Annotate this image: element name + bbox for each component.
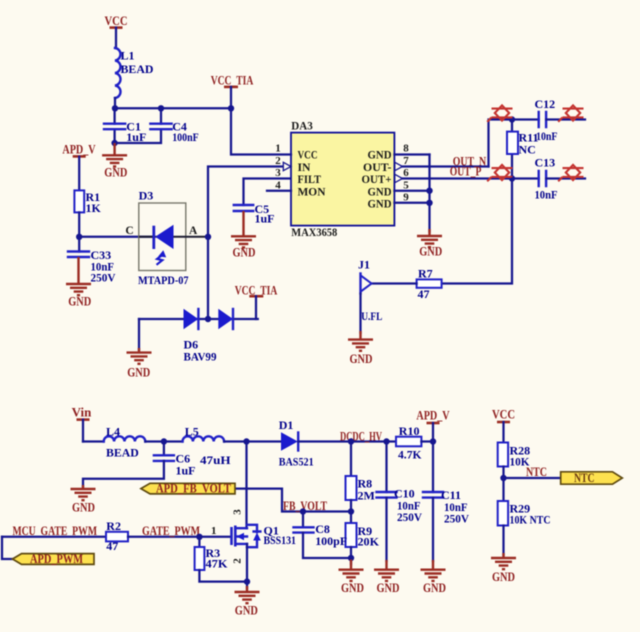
svg-text:GND: GND: [368, 199, 392, 211]
resistor R9: [346, 523, 380, 549]
power port VCC_TIA: [211, 74, 254, 109]
svg-text:GND: GND: [104, 165, 127, 179]
signal harness APD_PWM flag: [13, 552, 95, 566]
capacitor C6: [154, 442, 196, 478]
svg-text:5: 5: [403, 179, 409, 191]
no-ERC marker left of C12: [487, 105, 512, 121]
svg-text:1uF: 1uF: [126, 130, 146, 144]
svg-text:OUT+: OUT+: [362, 174, 392, 186]
node junction C11/APD_V: [430, 438, 436, 444]
svg-text:GND: GND: [423, 581, 446, 595]
svg-text:7: 7: [403, 155, 409, 167]
capacitor C4: [115, 108, 199, 144]
svg-text:NTC: NTC: [574, 471, 595, 485]
svg-text:VCC_TIA: VCC_TIA: [211, 74, 254, 88]
svg-text:8: 8: [403, 143, 409, 155]
node junction L1/C1: [112, 105, 118, 111]
power port Vin: [72, 406, 92, 442]
svg-text:A: A: [189, 225, 198, 237]
diode D6 BAV99: [139, 309, 258, 364]
wire R10 to APD_V: [421, 440, 433, 442]
svg-text:OUT_P: OUT_P: [450, 165, 482, 179]
node junction pin9: [426, 200, 432, 206]
resistor R7: [417, 266, 442, 301]
svg-text:10nF: 10nF: [536, 129, 558, 143]
svg-text:6: 6: [403, 167, 409, 179]
wire Vin to L4: [83, 440, 104, 442]
wire L5 to D1: [224, 440, 281, 442]
wire A node up to pin2 and down to D6: [208, 167, 283, 320]
svg-text:GND: GND: [68, 294, 91, 308]
svg-text:APD_V: APD_V: [62, 143, 95, 157]
resistor R8: [346, 442, 375, 503]
svg-text:MTAPD-07: MTAPD-07: [138, 273, 189, 287]
pin 8 GND: [368, 143, 430, 162]
svg-text:1uF: 1uF: [255, 211, 275, 225]
resistor R1: [74, 190, 101, 215]
ground below J1: [348, 331, 373, 366]
svg-text:R10: R10: [399, 424, 420, 438]
wire MCU_GATE_PWM: [2, 536, 106, 538]
svg-text:GND: GND: [492, 570, 515, 584]
wire D6 left to ground: [138, 319, 140, 350]
svg-text:MON: MON: [298, 186, 327, 198]
node junction R1/C33: [76, 234, 82, 240]
power port APD_V right: [416, 408, 449, 441]
ground below C33: [66, 257, 91, 308]
wire left drop to APD_PWM: [2, 537, 13, 559]
ground below C11: [421, 560, 447, 595]
svg-text:4: 4: [275, 179, 281, 191]
no-ERC marker right of C12: [558, 105, 583, 121]
node junction C8 top: [300, 508, 306, 514]
svg-text:APD_PWM: APD_PWM: [30, 552, 83, 566]
ground below Q1: [235, 586, 260, 617]
node junction pin5: [426, 188, 432, 194]
wire R7 to J1: [372, 282, 417, 284]
capacitor C33: [68, 237, 116, 284]
power port VCC: [105, 14, 128, 48]
svg-text:NTC: NTC: [526, 465, 547, 479]
wire drain vertical: [245, 442, 247, 529]
svg-text:4.7K: 4.7K: [398, 447, 422, 461]
wire L1 to rail: [114, 98, 116, 108]
svg-text:U.FL: U.FL: [361, 309, 382, 323]
transistor Q1 BSS131: [211, 509, 296, 564]
wire R1 to node: [78, 212, 80, 236]
no-ERC marker left of C13: [487, 165, 512, 181]
resistor R10: [396, 424, 422, 461]
power port VCC right: [492, 408, 515, 443]
wire R2 to gate: [128, 536, 231, 538]
svg-text:1: 1: [275, 143, 281, 155]
wire C6 to ground: [83, 461, 164, 487]
svg-text:GND: GND: [368, 186, 392, 198]
svg-text:IN: IN: [298, 162, 312, 174]
resistor R11: [507, 120, 539, 179]
capacitor C11: [423, 442, 469, 562]
svg-text:NC: NC: [519, 143, 536, 157]
svg-text:GND: GND: [341, 581, 364, 595]
node junction R8 branch: [348, 438, 354, 444]
pin 1 VCC: [231, 108, 318, 161]
photodiode D3: [125, 189, 208, 287]
wire node to NTC flag: [504, 477, 561, 479]
svg-text:10K NTC: 10K NTC: [510, 513, 551, 527]
wire R28 to node: [502, 467, 504, 502]
svg-text:1: 1: [211, 525, 217, 537]
svg-text:250V: 250V: [444, 511, 469, 525]
svg-text:250V: 250V: [91, 270, 116, 284]
svg-text:D1: D1: [279, 418, 294, 432]
wire R8 to FB_VOLT node: [350, 500, 352, 523]
ground below D6: [127, 348, 152, 380]
inductor L5: [182, 424, 231, 467]
wire pins 8/5/9 to ground: [428, 155, 430, 232]
svg-text:APD_FB_VOLT: APD_FB_VOLT: [156, 482, 232, 496]
svg-text:Vin: Vin: [72, 406, 92, 420]
pin 9 GND: [368, 191, 430, 210]
signal harness NTC flag: [561, 471, 623, 485]
wire FB_VOLT run: [235, 489, 351, 512]
svg-text:L1: L1: [121, 49, 135, 63]
inductor L4: [104, 424, 146, 459]
svg-text:BEAD: BEAD: [106, 445, 139, 459]
svg-text:C: C: [125, 225, 133, 237]
node junction R9/C8 bottom: [348, 555, 354, 561]
svg-text:100pF: 100pF: [315, 534, 347, 548]
inductor L1: [115, 48, 154, 98]
diode D1 BAS521: [279, 418, 314, 469]
svg-text:R2: R2: [106, 519, 121, 533]
svg-text:VCC: VCC: [492, 408, 515, 422]
svg-text:VCC: VCC: [105, 14, 128, 28]
ground below Vin: [71, 485, 96, 514]
svg-text:BAS521: BAS521: [279, 455, 314, 469]
capacitor C13: [535, 155, 586, 201]
ground below C5: [231, 211, 256, 259]
ground below R9: [339, 560, 365, 595]
wire R29 to ground: [502, 526, 504, 556]
svg-text:9: 9: [403, 191, 409, 203]
ground below C1: [102, 143, 127, 179]
svg-text:250V: 250V: [397, 510, 422, 524]
pin 6 OUT+: [362, 167, 539, 186]
svg-text:APD_V: APD_V: [416, 408, 449, 422]
ground below C10: [374, 560, 400, 595]
node junction C6: [161, 438, 167, 444]
op-amp U1 / IC DA3 MAX3658: [291, 120, 394, 239]
node junction C10 branch: [383, 438, 389, 444]
svg-text:GATE_PWM: GATE_PWM: [142, 524, 200, 538]
wire VCC_TIA rail: [115, 107, 231, 109]
capacitor C12: [535, 97, 586, 143]
node junction Q1 drain branch: [243, 438, 249, 444]
capacitor C8: [294, 512, 352, 559]
resistor R3: [195, 537, 229, 571]
wire J1 to ground: [359, 294, 361, 334]
svg-text:GND: GND: [419, 244, 442, 258]
svg-text:2M: 2M: [358, 488, 375, 502]
node junction C4: [158, 105, 164, 111]
ground below IC: [417, 229, 442, 258]
no-ERC marker right of C13: [558, 165, 583, 181]
svg-text:10nF: 10nF: [535, 187, 558, 201]
wire R9 to ground: [350, 547, 352, 564]
svg-text:C13: C13: [535, 155, 556, 169]
node junction source/R3: [244, 578, 250, 584]
svg-text:47uH: 47uH: [200, 453, 231, 467]
resistor R2: [106, 519, 128, 553]
pin 3 FILT: [275, 167, 321, 186]
signal harness APD_FB_VOLT flag: [141, 482, 235, 496]
svg-text:2: 2: [232, 558, 244, 564]
wire OUT_N up and to C12: [489, 120, 539, 167]
svg-text:2: 2: [275, 155, 281, 167]
svg-text:47: 47: [106, 539, 118, 553]
power port VCC_TIA right: [235, 284, 278, 319]
wire R3 to source: [199, 570, 247, 582]
svg-text:3: 3: [275, 167, 281, 179]
capacitor C5: [234, 179, 291, 226]
svg-text:GND: GND: [72, 500, 95, 514]
resistor R28: [498, 443, 530, 469]
node junction R11 top: [509, 116, 515, 122]
capacitor C10: [377, 442, 423, 562]
svg-text:BAV99: BAV99: [184, 350, 217, 364]
svg-text:20K: 20K: [358, 535, 380, 549]
svg-text:MAX3658: MAX3658: [291, 227, 337, 239]
svg-text:VCC: VCC: [298, 150, 318, 162]
svg-text:BSS131: BSS131: [264, 533, 297, 547]
svg-text:3: 3: [232, 509, 244, 515]
node junction gate/R3: [196, 534, 202, 540]
wire OUT_P node down to R7: [442, 179, 512, 284]
ground below R29: [491, 553, 516, 584]
svg-text:47K: 47K: [206, 557, 229, 571]
svg-text:DA3: DA3: [291, 120, 313, 132]
resistor R29: [498, 501, 551, 527]
node junction C1/C4 bottom: [111, 140, 117, 146]
svg-text:L4: L4: [106, 424, 120, 438]
svg-text:DCDC_HV: DCDC_HV: [340, 430, 382, 444]
svg-text:47: 47: [418, 287, 430, 301]
node junction FB_VOLT: [348, 508, 354, 514]
wire node to D3 cathode: [79, 236, 153, 238]
connector J1 U.FL: [358, 258, 382, 324]
wire L4 to L5: [145, 440, 182, 442]
svg-text:OUT-: OUT-: [363, 162, 392, 174]
svg-text:1uF: 1uF: [176, 464, 196, 478]
svg-text:GND: GND: [350, 352, 373, 366]
power port APD_V: [62, 143, 95, 191]
pin 7 OUT-: [363, 155, 489, 174]
svg-text:100nF: 100nF: [172, 130, 199, 144]
svg-text:L5: L5: [185, 424, 199, 438]
svg-text:FILT: FILT: [298, 174, 322, 186]
svg-text:C12: C12: [535, 97, 556, 111]
pin 4 MON: [267, 179, 326, 198]
svg-text:BEAD: BEAD: [121, 62, 154, 76]
pin 5 GND: [368, 179, 430, 198]
wire D1 to R10 / DCDC_HV: [298, 440, 396, 442]
node junction R11 bottom: [509, 175, 515, 181]
svg-text:GND: GND: [368, 150, 392, 162]
wire source down: [246, 544, 248, 588]
node junction D6 middle: [205, 316, 211, 322]
svg-text:J1: J1: [358, 258, 370, 272]
capacitor C1: [104, 108, 146, 144]
svg-text:R7: R7: [418, 266, 433, 280]
node junction VCC_TIA: [228, 105, 234, 111]
pin 2 IN: [275, 155, 311, 174]
svg-text:D3: D3: [139, 189, 154, 203]
svg-text:GND: GND: [233, 245, 256, 259]
svg-text:1K: 1K: [86, 201, 102, 215]
svg-text:GND: GND: [127, 366, 150, 380]
node junction A: [205, 234, 211, 240]
svg-text:GND: GND: [235, 603, 258, 617]
node junction NTC: [500, 475, 506, 481]
svg-text:GND: GND: [377, 581, 400, 595]
